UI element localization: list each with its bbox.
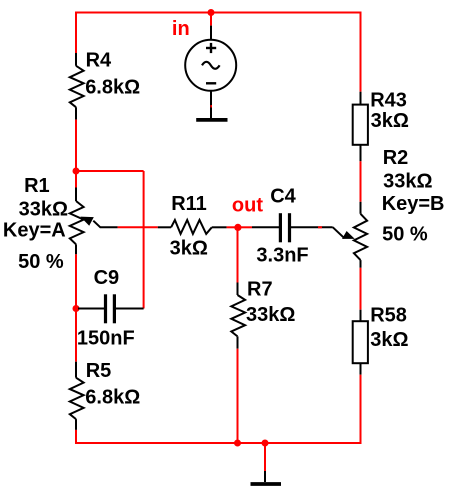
potentiometer R1 body: [70, 188, 84, 255]
wire left rail R4 to R1 junction: [75, 120, 77, 188]
potentiometer R1 wiper arrow: [80, 217, 117, 228]
wire R58 to bottom rail: [360, 375, 362, 444]
svg-text:33kΩ: 33kΩ: [383, 170, 432, 192]
wire C9 right branch vertical: [143, 171, 145, 309]
wire junction A to C9 right branch (horizontal): [76, 170, 144, 172]
svg-text:150nF: 150nF: [77, 328, 135, 350]
svg-text:C4: C4: [270, 185, 296, 207]
wire ground stem: [264, 443, 266, 471]
node C9 left junction: [73, 305, 80, 312]
svg-text:3kΩ: 3kΩ: [370, 329, 408, 351]
wire left rail upper (to R4): [75, 12, 77, 54]
svg-text:C9: C9: [94, 267, 120, 289]
wire in node to source: [210, 13, 212, 26]
resistor R5: [70, 362, 84, 430]
capacitor C4: [252, 213, 333, 242]
wire nub on C4 right lead: [318, 226, 322, 228]
node ground bottom: [262, 440, 269, 447]
wire R1 wiper to R11: [118, 226, 158, 228]
svg-text:R1: R1: [24, 175, 50, 197]
svg-text:R2: R2: [383, 147, 409, 169]
wire R5 to bottom rail: [75, 430, 77, 444]
svg-text:R4: R4: [86, 49, 112, 71]
potentiometer R2 body: [354, 202, 367, 268]
svg-text:Key=B: Key=B: [382, 193, 445, 215]
wire R7 to bottom rail: [237, 349, 239, 443]
wire out node down to R7: [237, 227, 239, 282]
svg-text:R11: R11: [171, 193, 207, 215]
svg-text:33kΩ: 33kΩ: [19, 199, 68, 221]
svg-text:3kΩ: 3kΩ: [371, 110, 409, 132]
wire right rail top to R43: [360, 12, 362, 92]
node R7 bottom: [234, 440, 241, 447]
node out: [234, 224, 241, 231]
wire top rail: [75, 12, 362, 14]
AC source V1: [185, 26, 236, 119]
svg-text:3kΩ: 3kΩ: [170, 237, 208, 259]
wire nub on source stem: [210, 105, 212, 108]
resistor R11: [158, 220, 227, 234]
wire out node to C4: [238, 226, 253, 228]
resistor R7: [231, 283, 245, 349]
wire bottom rail: [75, 442, 362, 444]
svg-text:6.8kΩ: 6.8kΩ: [85, 76, 140, 98]
resistor R58: [353, 310, 368, 375]
wire R2 to R58: [360, 268, 362, 310]
ground (bottom): [251, 471, 282, 484]
svg-text:R58: R58: [370, 305, 407, 327]
wire left rail R1 to C9 junction to R5: [75, 254, 77, 361]
wire R11 to out node: [227, 226, 238, 228]
svg-text:50 %: 50 %: [382, 224, 428, 246]
svg-text:R5: R5: [86, 360, 112, 382]
svg-text:50 %: 50 %: [18, 251, 64, 273]
svg-text:R43: R43: [370, 90, 407, 112]
resistor R4: [70, 53, 84, 120]
potentiometer R2 wiper arrow: [333, 227, 355, 239]
svg-text:6.8kΩ: 6.8kΩ: [85, 387, 140, 409]
svg-text:3.3nF: 3.3nF: [256, 245, 308, 267]
ground (under source): [196, 118, 227, 122]
svg-text:R7: R7: [247, 279, 273, 301]
node in (top): [208, 9, 215, 16]
resistor R43: [353, 92, 368, 162]
svg-text:in: in: [172, 18, 190, 40]
capacitor C9: [78, 294, 144, 323]
svg-text:33kΩ: 33kΩ: [246, 304, 295, 326]
svg-text:Key=A: Key=A: [3, 220, 66, 242]
node junction A (R4/R1/C9 bridge): [73, 168, 80, 175]
svg-text:out: out: [232, 195, 263, 217]
wire R43 to R2: [360, 161, 362, 202]
